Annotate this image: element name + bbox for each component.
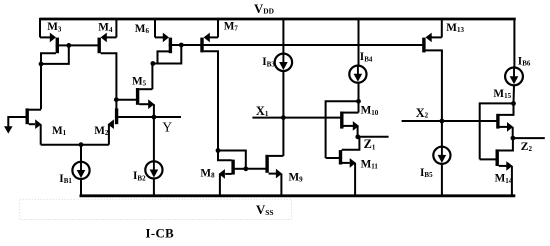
M11 label [361, 158, 379, 170]
wire node X2 [402, 120, 497, 122]
transistor M1 [27, 108, 41, 144]
M4 label [98, 22, 113, 34]
svg-text:M2: M2 [94, 125, 109, 137]
IB4 label [360, 51, 373, 63]
wire IB6 to M15 [513, 85, 516, 103]
transistor M7 [202, 18, 218, 151]
transistor M8 [218, 151, 246, 196]
wire M3 drain [41, 53, 56, 109]
svg-text:M13: M13 [446, 22, 464, 34]
transistor M14 [480, 138, 513, 196]
IB2 label [133, 170, 146, 182]
current source IB3 [275, 54, 292, 71]
M13 label [446, 22, 464, 34]
node M5 gate dot [114, 97, 119, 102]
M6 label [135, 23, 150, 35]
node M10 drain dot [356, 99, 361, 104]
wire M9 drain to X1 [282, 118, 284, 156]
wire node Z2 [513, 137, 545, 139]
svg-text:M4: M4 [98, 22, 113, 34]
X1 label [256, 104, 269, 118]
node M7 drain dot [216, 148, 221, 153]
transistor M4 [99, 18, 116, 109]
VSS label [256, 203, 273, 217]
node Z2 [511, 136, 516, 141]
svg-text:Z2: Z2 [521, 139, 533, 153]
svg-text:X2: X2 [416, 106, 429, 120]
current source IB1 [72, 162, 89, 179]
M15 label [493, 88, 511, 100]
svg-text:IB2: IB2 [133, 170, 146, 182]
svg-text:M14: M14 [495, 173, 513, 185]
transistor M10 [342, 112, 359, 137]
node M3 drain dot [39, 62, 44, 67]
M3 label [47, 21, 62, 33]
wire node Y [118, 116, 181, 118]
node M8 gate dot [243, 166, 248, 171]
wire M8 diode loop [218, 151, 246, 169]
svg-text:IB4: IB4 [360, 51, 373, 63]
svg-text:M10: M10 [361, 105, 379, 117]
M5 label [132, 75, 147, 87]
svg-text:M9: M9 [289, 171, 304, 183]
wire IB2 to VSS [153, 178, 155, 195]
transistor M15 [498, 103, 514, 138]
IB6 label [518, 55, 531, 67]
svg-text:X1: X1 [256, 104, 269, 118]
svg-text:M15: M15 [493, 88, 511, 100]
svg-text:Y: Y [162, 119, 172, 134]
wire M6 diode loop [152, 45, 181, 64]
wire M3 diode loop [41, 45, 69, 64]
wire IB3 to X1 [282, 71, 284, 118]
transistor M3 [40, 18, 69, 53]
wire node X1 [252, 117, 340, 119]
svg-text:IB3: IB3 [262, 56, 275, 68]
VSS rail [80, 194, 516, 197]
node X2 [440, 119, 445, 124]
svg-text:M5: M5 [132, 75, 147, 87]
wire VDD to IB4 [358, 18, 360, 66]
wire M10 gate loop [326, 101, 359, 158]
svg-text:M6: M6 [135, 23, 150, 35]
current source IB5 [433, 147, 450, 164]
wire M8-M9 gates [246, 168, 266, 170]
transistor M6 [155, 18, 181, 53]
svg-text:M3: M3 [47, 21, 62, 33]
wire tail [41, 144, 109, 146]
VDD label [254, 2, 274, 16]
wire VDD corner to IB6 [513, 18, 515, 68]
svg-text:M7: M7 [224, 20, 239, 32]
svg-text:M1: M1 [52, 125, 67, 137]
M2 label [94, 125, 109, 137]
svg-text:VSS: VSS [256, 203, 273, 217]
wire IB4 to M10 [358, 83, 360, 113]
node tail dot [79, 142, 84, 147]
svg-text:IB5: IB5 [420, 167, 433, 179]
svg-text:M11: M11 [361, 158, 379, 170]
wire IB1 to VSS [80, 179, 82, 196]
node X1 [281, 115, 286, 120]
wire M14 gate loop [480, 103, 514, 159]
IB3 label [262, 56, 275, 68]
node Z1 [355, 134, 360, 139]
current source IB6 [505, 68, 523, 86]
M8 label [200, 167, 215, 179]
wire node Z1 [358, 136, 389, 138]
wire X2 to IB5 [441, 121, 443, 147]
Z2 label [521, 139, 533, 153]
M1 label [52, 125, 67, 137]
wire gate line to M13 [181, 44, 422, 46]
wire M3 gate to M4 [69, 44, 98, 46]
X2 label [416, 106, 429, 120]
M14 label [495, 173, 513, 185]
transistor M13 [424, 18, 442, 121]
wire VDD to IB3 [282, 18, 284, 54]
node M15 drain dot [511, 101, 516, 106]
M10 label [361, 105, 379, 117]
IB1 label [59, 173, 72, 185]
wire tail to IB1 [80, 145, 82, 163]
node M6 gate dot [179, 43, 184, 48]
transistor M5 [116, 88, 154, 117]
wire M6 drain [158, 51, 170, 63]
IB5 label [420, 167, 433, 179]
svg-text:I-CB: I-CB [146, 226, 175, 240]
dashed box 1-CB [20, 199, 292, 219]
ground [4, 117, 26, 134]
I-CB caption [146, 226, 175, 240]
Z1 label [364, 137, 376, 151]
node M6 drain dot [151, 61, 156, 66]
node M3 gate dot [66, 43, 71, 48]
transistor M9 [267, 155, 283, 196]
M7 label [224, 20, 239, 32]
transistor M2 [108, 108, 117, 144]
svg-text:IB6: IB6 [518, 55, 531, 67]
node Y dot [152, 115, 157, 120]
svg-text:M8: M8 [200, 167, 215, 179]
wire Y to IB2 [153, 117, 155, 162]
svg-text:Z1: Z1 [364, 137, 376, 151]
Y label [162, 119, 172, 134]
transistor M11 [326, 137, 360, 196]
svg-text:VDD: VDD [254, 2, 274, 16]
current source IB4 [349, 66, 366, 83]
M9 label [289, 171, 304, 183]
wire IB5 to VSS [441, 164, 443, 196]
VDD rail [40, 18, 516, 21]
svg-text:IB1: IB1 [59, 173, 72, 185]
wire M6 to M5 [151, 64, 153, 90]
current source IB2 [145, 161, 162, 178]
